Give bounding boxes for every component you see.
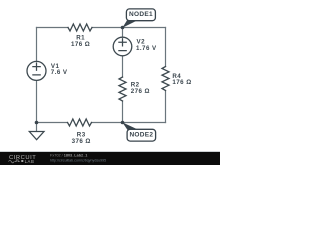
node junction dot top (NODE1) [121,26,125,30]
svg-text:http://circuitlab.com/c/bqynyd: http://circuitlab.com/c/bqynydsu995 [50,158,106,162]
svg-text:1.76 V: 1.76 V [136,45,157,52]
wire top-left: top rail left lead [37,27,69,29]
svg-text:LAB: LAB [25,159,35,164]
wire left rail above V1 [36,28,38,62]
svg-text:176 Ω: 176 Ω [172,79,191,86]
resistor R4 [162,67,169,91]
node junction dot bottom (NODE2) [121,121,125,125]
wire top rail right of R1 [92,27,166,29]
svg-text:276 Ω: 276 Ω [131,88,150,95]
svg-text:NODE1: NODE1 [129,11,153,18]
resistor R3 [68,119,92,126]
wire middle branch junction to V2 [122,28,124,38]
svg-text:376 Ω: 376 Ω [72,138,91,145]
wire bottom rail right of R3 [92,122,166,124]
footer CircuitLab logo [9,155,37,164]
wire right rail above R4 [165,28,167,67]
wire left rail below V1 [36,80,38,122]
ground [29,132,44,140]
wire bottom rail left of R3 [37,122,68,124]
footer text [50,154,106,163]
voltage source V2 [113,37,132,56]
node NODE1 callout [122,9,155,28]
wire right rail below R4 [165,91,167,123]
svg-text:176 Ω: 176 Ω [71,41,90,48]
footer bar [0,151,220,152]
node NODE2 callout [122,122,155,141]
svg-text:7.6 V: 7.6 V [51,69,68,76]
wire middle branch R2 to bottom junction [122,101,124,123]
resistor R2 [119,77,126,101]
voltage source V1 [27,61,46,80]
wire ground stub [36,123,38,132]
node junction dot ground [35,121,39,125]
svg-text:Fx702 / 1803_Lab2_1: Fx702 / 1803_Lab2_1 [50,154,87,158]
svg-text:NODE2: NODE2 [129,132,153,139]
resistor R1 [68,24,92,31]
wire middle branch V2 to R2 [122,56,124,77]
